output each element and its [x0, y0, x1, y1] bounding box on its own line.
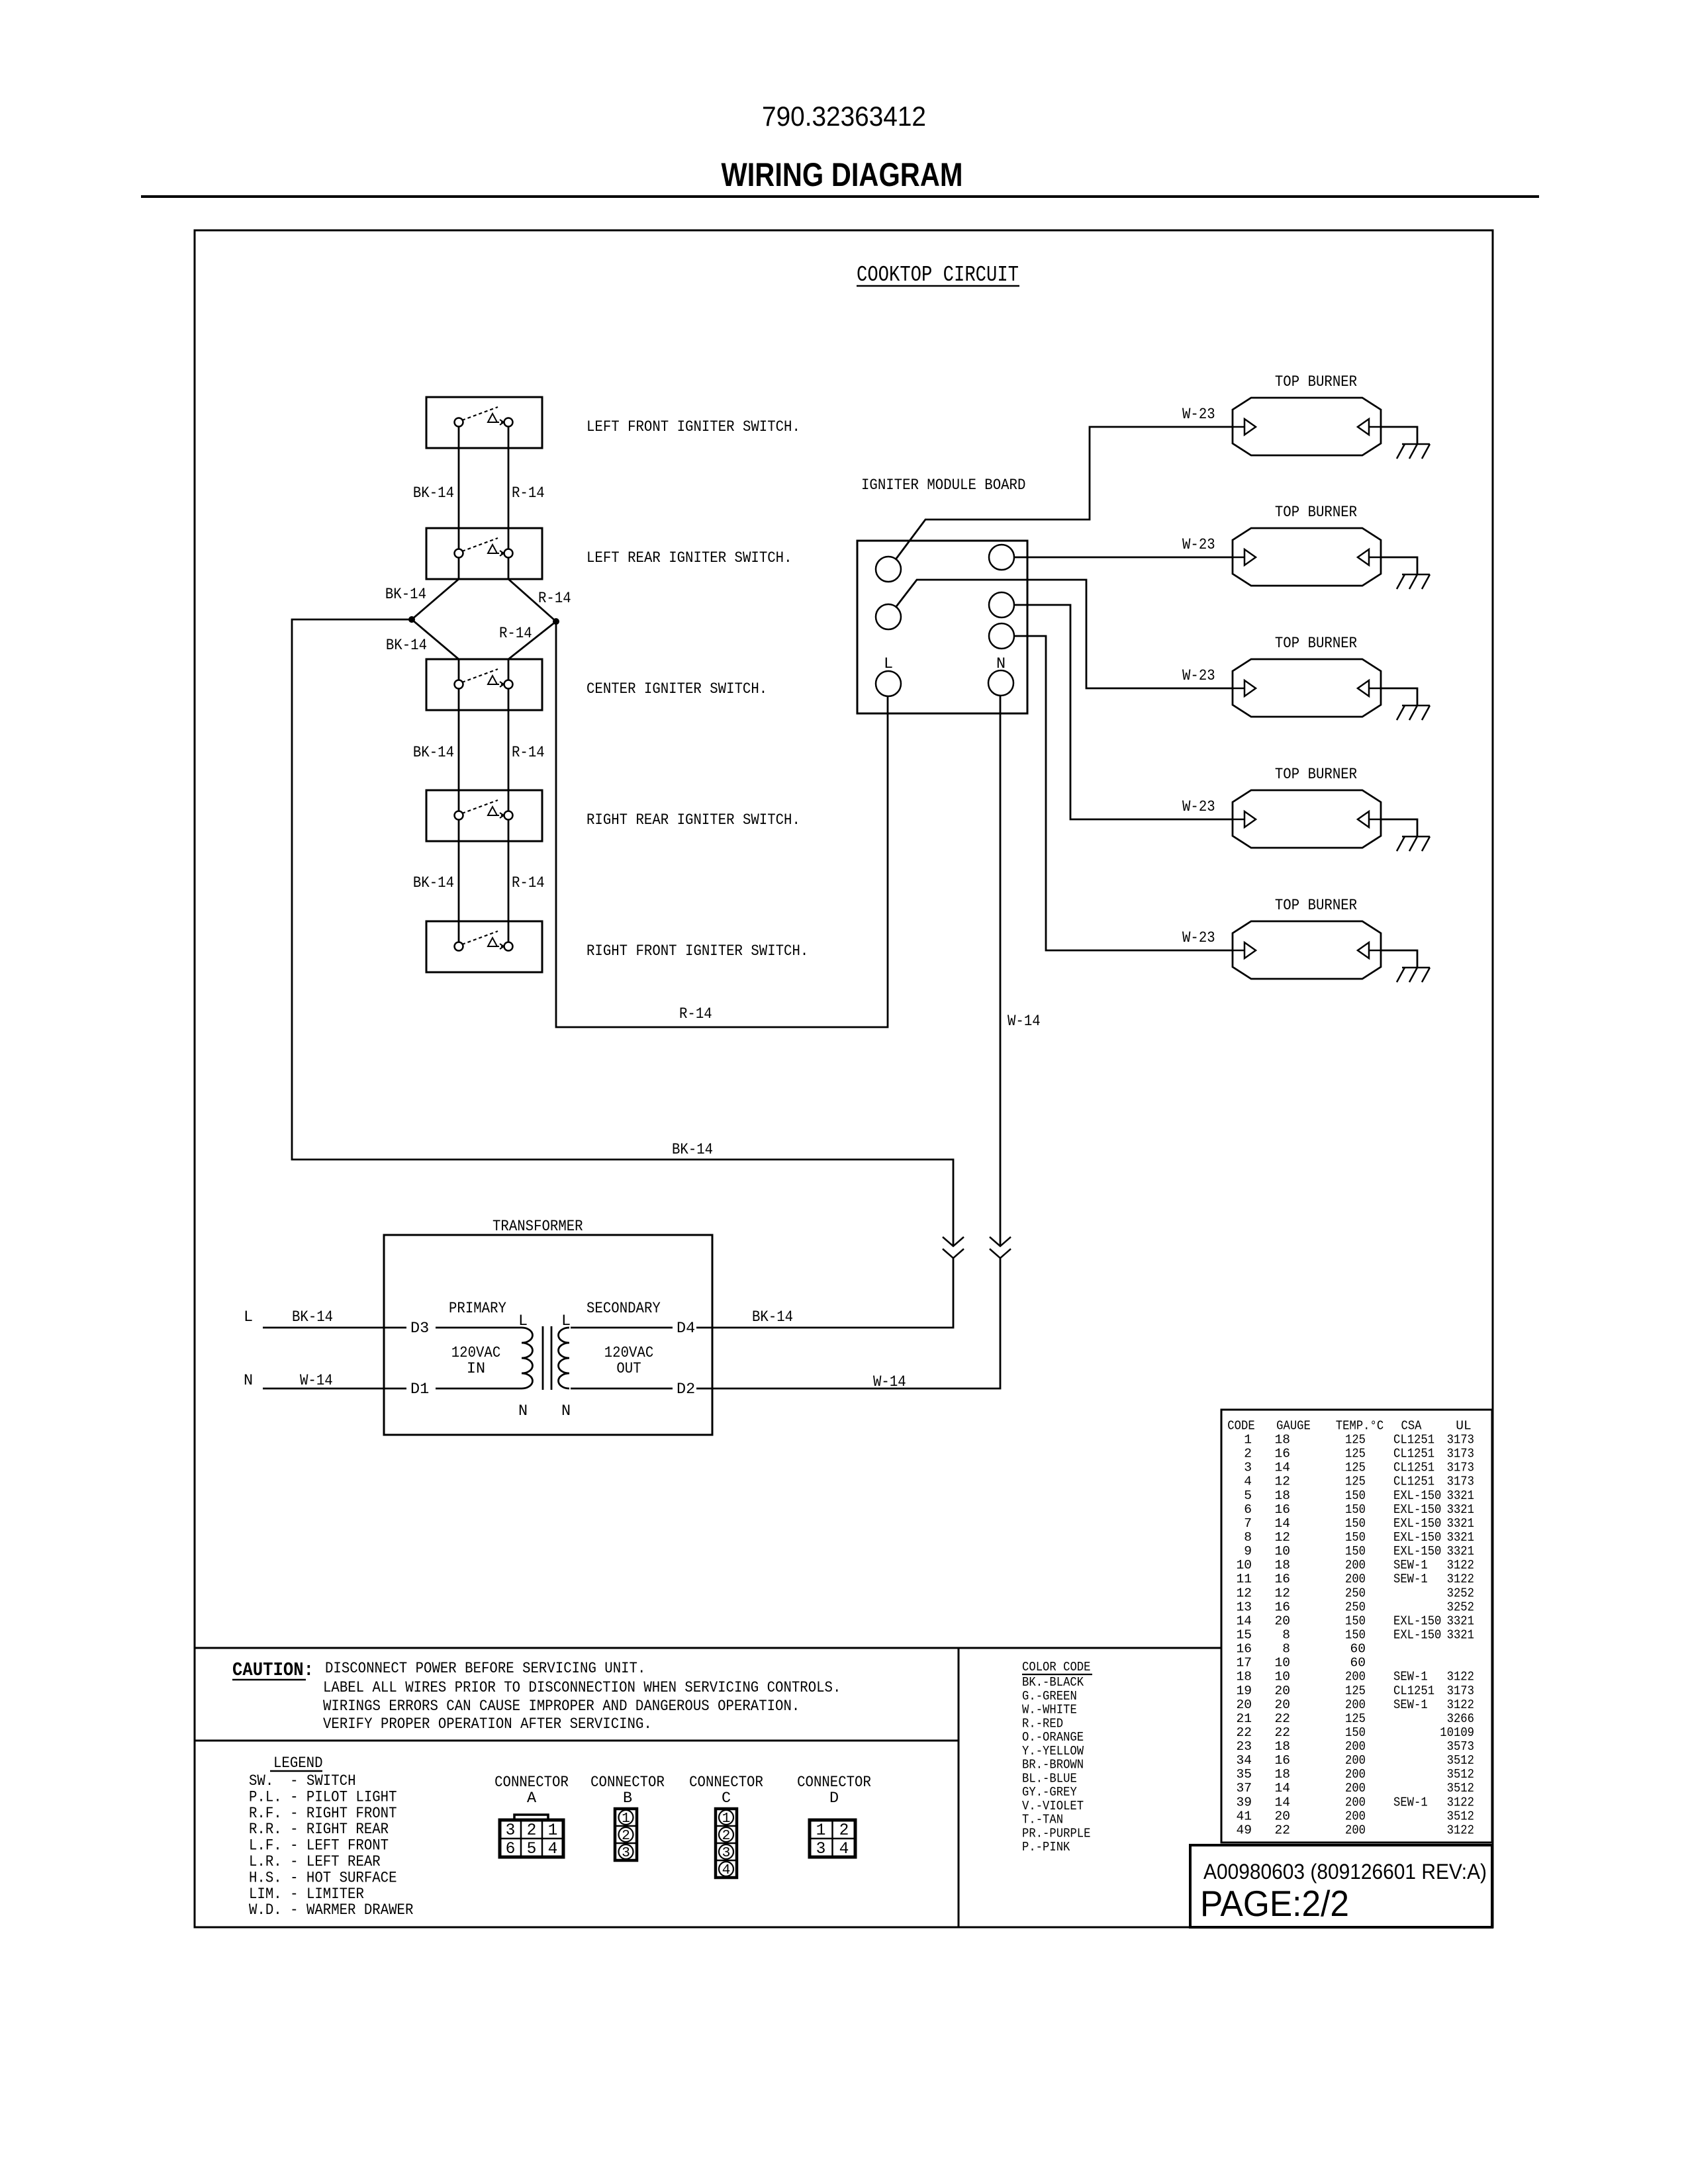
svg-text:23: 23: [1236, 1739, 1252, 1754]
svg-text:EXL-150: EXL-150: [1393, 1530, 1441, 1545]
svg-text:RIGHT FRONT IGNITER SWITCH.: RIGHT FRONT IGNITER SWITCH.: [586, 942, 808, 960]
wire board pinA to top burner 2: [1002, 557, 1233, 559]
svg-text:BK-14: BK-14: [385, 586, 426, 604]
svg-text:39: 39: [1236, 1795, 1252, 1809]
svg-text:37: 37: [1236, 1781, 1252, 1796]
burner B1 ground wire: [1381, 427, 1417, 444]
svg-text:TRANSFORMER: TRANSFORMER: [492, 1218, 583, 1236]
main diagram border: [195, 230, 1493, 1927]
svg-text:125: 125: [1345, 1447, 1366, 1461]
svg-text:GAUGE: GAUGE: [1276, 1419, 1311, 1433]
svg-text:BK-14: BK-14: [386, 637, 427, 655]
burner B1 right pin arrow: [1369, 426, 1381, 428]
svg-text:SW. - SWITCH: SW. - SWITCH: [249, 1772, 356, 1790]
switch SW2 left contact: [455, 549, 463, 558]
svg-text:3321: 3321: [1447, 1516, 1474, 1531]
svg-text:3122: 3122: [1447, 1572, 1474, 1586]
svg-text:3512: 3512: [1447, 1767, 1474, 1782]
burner B5 left pin arrow: [1233, 950, 1244, 952]
burner B4 right pin arrow: [1369, 819, 1381, 821]
svg-text:3321: 3321: [1447, 1544, 1474, 1559]
svg-text:CL1251: CL1251: [1393, 1684, 1434, 1698]
wire board pinC to top burner 5: [1002, 636, 1233, 950]
switch SW1 left contact: [455, 418, 463, 427]
svg-text:18: 18: [1274, 1433, 1290, 1447]
svg-text:L.R. - LEFT REAR: L.R. - LEFT REAR: [249, 1853, 381, 1871]
svg-text:BK-14: BK-14: [413, 874, 454, 892]
svg-text:EXL-150: EXL-150: [1393, 1544, 1441, 1559]
burner B4 left pin arrow: [1233, 819, 1244, 821]
burner B5 right pin arrow: [1369, 950, 1381, 952]
svg-text:150: 150: [1345, 1502, 1366, 1517]
igniter switch SW3 box: [426, 659, 542, 710]
svg-text:1: 1: [1244, 1433, 1252, 1447]
svg-text:200: 200: [1345, 1781, 1366, 1796]
svg-text:H.S. - HOT SURFACE: H.S. - HOT SURFACE: [249, 1869, 397, 1887]
svg-text:3173: 3173: [1447, 1684, 1474, 1698]
svg-text:N: N: [518, 1402, 528, 1420]
wire board pinB to top burner 4: [1002, 605, 1233, 819]
svg-text:9: 9: [1244, 1544, 1252, 1559]
svg-text:3122: 3122: [1447, 1823, 1474, 1838]
svg-text:CAUTION:: CAUTION:: [232, 1659, 314, 1681]
svg-text:150: 150: [1345, 1725, 1366, 1740]
wire board pin1 to top burner 1: [888, 427, 1233, 569]
igniter switch SW1 box: [426, 397, 542, 448]
svg-text:VERIFY PROPER OPERATION AFTER: VERIFY PROPER OPERATION AFTER SERVICING.: [323, 1715, 652, 1733]
svg-text:125: 125: [1345, 1433, 1366, 1447]
svg-text:LEFT FRONT IGNITER SWITCH.: LEFT FRONT IGNITER SWITCH.: [586, 418, 800, 436]
svg-text:R.-RED: R.-RED: [1022, 1716, 1063, 1731]
svg-text:WIRINGS ERRORS CAN CAUSE IMPRO: WIRINGS ERRORS CAN CAUSE IMPROPER AND DA…: [323, 1698, 800, 1715]
svg-text:W-14: W-14: [300, 1372, 333, 1390]
switch SW4 right contact: [504, 811, 513, 820]
svg-text:3321: 3321: [1447, 1628, 1474, 1643]
node J2 junction dot: [553, 618, 559, 625]
svg-text:3: 3: [506, 1822, 516, 1840]
svg-text:R-14: R-14: [512, 874, 545, 892]
svg-text:150: 150: [1345, 1488, 1366, 1503]
svg-text:CODE: CODE: [1227, 1419, 1254, 1433]
svg-text:A: A: [527, 1790, 537, 1807]
svg-text:L: L: [518, 1312, 528, 1330]
ground symbol burner B4: [1402, 836, 1430, 838]
svg-text:CL1251: CL1251: [1393, 1433, 1434, 1447]
svg-text:16: 16: [1274, 1447, 1290, 1461]
svg-text:12: 12: [1236, 1586, 1252, 1600]
svg-text:200: 200: [1345, 1767, 1366, 1782]
svg-text:COLOR CODE: COLOR CODE: [1022, 1660, 1091, 1674]
svg-text:R-14: R-14: [512, 744, 545, 762]
svg-text:N: N: [561, 1402, 571, 1420]
svg-text:LABEL ALL WIRES PRIOR TO DISCO: LABEL ALL WIRES PRIOR TO DISCONNECTION W…: [323, 1679, 841, 1697]
board L terminal: [876, 671, 901, 696]
board pinB terminal: [989, 592, 1014, 617]
svg-text:10: 10: [1274, 1670, 1290, 1684]
svg-text:3173: 3173: [1447, 1433, 1474, 1447]
svg-text:6: 6: [506, 1841, 516, 1858]
wire BK-14 SW3-SW4: [458, 684, 460, 815]
svg-text:11: 11: [1236, 1572, 1252, 1586]
svg-text:3321: 3321: [1447, 1488, 1474, 1503]
wire BK-14 SW2 to node J1: [412, 553, 459, 619]
svg-text:3: 3: [622, 1845, 630, 1861]
svg-text:W.D. - WARMER DRAWER: W.D. - WARMER DRAWER: [249, 1901, 413, 1919]
svg-text:3321: 3321: [1447, 1614, 1474, 1628]
connector chevron on W-14 bus: [990, 1237, 1011, 1246]
svg-text:TOP BURNER: TOP BURNER: [1275, 504, 1357, 522]
svg-text:3173: 3173: [1447, 1475, 1474, 1489]
burner B3 ground wire: [1381, 688, 1417, 705]
svg-text:4: 4: [839, 1841, 849, 1858]
svg-text:IN: IN: [467, 1360, 485, 1378]
wire D2 secondary out: [571, 1388, 673, 1390]
svg-text:2: 2: [527, 1822, 537, 1840]
svg-text:IGNITER MODULE BOARD: IGNITER MODULE BOARD: [861, 477, 1025, 494]
svg-text:SEW-1: SEW-1: [1393, 1795, 1428, 1809]
svg-text:4: 4: [722, 1862, 731, 1878]
svg-text:W-14: W-14: [1008, 1013, 1041, 1030]
color code panel left border: [958, 1648, 960, 1927]
connector A drawing: [514, 1815, 548, 1820]
svg-text:W.-WHITE: W.-WHITE: [1022, 1703, 1077, 1717]
svg-text:W-14: W-14: [873, 1373, 906, 1391]
top burner B5 octagon: [1233, 921, 1381, 979]
top burner B2 octagon: [1233, 528, 1381, 586]
svg-text:D: D: [829, 1790, 839, 1807]
svg-text:1: 1: [722, 1811, 731, 1827]
svg-text:60: 60: [1350, 1642, 1366, 1657]
title rule: [141, 195, 1539, 198]
svg-text:P.L. - PILOT LIGHT: P.L. - PILOT LIGHT: [249, 1788, 397, 1806]
wire board pin2 to top burner 3: [888, 580, 1233, 688]
svg-text:200: 200: [1345, 1795, 1366, 1809]
wire BK-14 switch column left SW1-SW2: [458, 422, 460, 553]
svg-text:3122: 3122: [1447, 1558, 1474, 1572]
svg-text:3512: 3512: [1447, 1809, 1474, 1823]
svg-text:WIRING DIAGRAM: WIRING DIAGRAM: [722, 156, 963, 193]
svg-text:3122: 3122: [1447, 1670, 1474, 1684]
svg-text:16: 16: [1274, 1753, 1290, 1768]
svg-text:LEGEND: LEGEND: [273, 1754, 323, 1772]
svg-text:20: 20: [1274, 1698, 1290, 1712]
svg-text:PR.-PURPLE: PR.-PURPLE: [1022, 1826, 1091, 1841]
svg-text:18: 18: [1236, 1670, 1252, 1684]
svg-text:18: 18: [1274, 1739, 1290, 1754]
svg-text:3: 3: [816, 1841, 826, 1858]
svg-text:13: 13: [1236, 1600, 1252, 1614]
svg-text:W-23: W-23: [1182, 798, 1215, 816]
page number box: [1190, 1845, 1492, 1927]
svg-text:125: 125: [1345, 1711, 1366, 1726]
svg-text:3: 3: [1244, 1461, 1252, 1475]
svg-text:16: 16: [1274, 1572, 1290, 1586]
svg-text:14: 14: [1274, 1781, 1290, 1796]
svg-text:2: 2: [622, 1828, 630, 1844]
svg-text:10: 10: [1236, 1558, 1252, 1572]
svg-text:2: 2: [839, 1822, 849, 1840]
ground symbol burner B5: [1402, 967, 1430, 969]
svg-text:D3: D3: [410, 1320, 429, 1338]
svg-text:20: 20: [1274, 1684, 1290, 1698]
igniter module board U1 box: [857, 541, 1027, 713]
svg-text:20: 20: [1274, 1809, 1290, 1823]
svg-text:120VAC: 120VAC: [451, 1344, 501, 1362]
svg-text:CONNECTOR: CONNECTOR: [797, 1774, 871, 1792]
svg-text:R-14: R-14: [538, 590, 571, 608]
wire BK-14 bus lower segment to D4: [696, 1258, 953, 1328]
svg-text:CONNECTOR: CONNECTOR: [590, 1774, 665, 1792]
switch SW4 left contact: [455, 811, 463, 820]
switch SW2 right contact: [504, 549, 513, 558]
wire R-14 switch column right SW1-SW2: [508, 422, 510, 553]
svg-text:W-23: W-23: [1182, 929, 1215, 947]
svg-text:18: 18: [1274, 1488, 1290, 1503]
svg-text:2: 2: [1244, 1447, 1252, 1461]
board pin1 terminal: [876, 557, 901, 582]
svg-text:PAGE:2/2: PAGE:2/2: [1200, 1883, 1349, 1924]
svg-text:14: 14: [1274, 1516, 1290, 1531]
svg-text:CONNECTOR: CONNECTOR: [494, 1774, 569, 1792]
svg-text:D1: D1: [410, 1381, 429, 1398]
svg-text:7: 7: [1244, 1516, 1252, 1531]
wire W-14 lower segment to transformer D2: [696, 1258, 1000, 1388]
svg-text:SECONDARY: SECONDARY: [586, 1300, 661, 1318]
svg-text:49: 49: [1236, 1823, 1252, 1838]
svg-text:200: 200: [1345, 1558, 1366, 1572]
svg-text:200: 200: [1345, 1670, 1366, 1684]
svg-text:LIM. - LIMITER: LIM. - LIMITER: [249, 1886, 364, 1903]
svg-text:EXL-150: EXL-150: [1393, 1614, 1441, 1628]
svg-text:150: 150: [1345, 1628, 1366, 1643]
svg-text:12: 12: [1274, 1530, 1290, 1545]
svg-text:22: 22: [1274, 1823, 1290, 1838]
svg-text:16: 16: [1236, 1642, 1252, 1657]
connector D drawing: [810, 1820, 855, 1857]
igniter switch SW4 box: [426, 790, 542, 841]
svg-text:3173: 3173: [1447, 1461, 1474, 1475]
svg-text:BK-14: BK-14: [752, 1308, 793, 1326]
svg-text:EXL-150: EXL-150: [1393, 1502, 1441, 1517]
svg-text:22: 22: [1274, 1725, 1290, 1740]
switch SW3 right contact: [504, 680, 513, 689]
svg-text:5: 5: [1244, 1488, 1252, 1503]
svg-text:SEW-1: SEW-1: [1393, 1558, 1428, 1572]
svg-text:14: 14: [1236, 1614, 1252, 1628]
svg-text:BR.-BROWN: BR.-BROWN: [1022, 1758, 1084, 1772]
svg-text:4: 4: [548, 1841, 558, 1858]
svg-text:SEW-1: SEW-1: [1393, 1670, 1428, 1684]
transformer T1 box: [384, 1235, 712, 1435]
svg-text:EXL-150: EXL-150: [1393, 1516, 1441, 1531]
svg-text:GY.-GREY: GY.-GREY: [1022, 1785, 1077, 1799]
wire R-14 SW3-SW4: [508, 684, 510, 815]
wire R-14 SW4-SW5: [508, 815, 510, 946]
svg-text:L: L: [884, 655, 893, 673]
svg-text:2: 2: [722, 1828, 731, 1844]
svg-text:790.32363412: 790.32363412: [762, 101, 926, 132]
svg-text:W-23: W-23: [1182, 667, 1215, 685]
igniter switch SW5 box: [426, 921, 542, 972]
svg-text:21: 21: [1236, 1711, 1252, 1726]
svg-text:22: 22: [1236, 1725, 1252, 1740]
svg-text:EXL-150: EXL-150: [1393, 1628, 1441, 1643]
svg-text:5: 5: [527, 1841, 537, 1858]
svg-text:10109: 10109: [1440, 1725, 1474, 1740]
svg-text:CL1251: CL1251: [1393, 1475, 1434, 1489]
caution box top line: [195, 1647, 1221, 1649]
svg-text:R-14: R-14: [499, 625, 532, 643]
svg-text:3: 3: [722, 1845, 731, 1861]
burner B1 left pin arrow: [1233, 426, 1244, 428]
svg-text:17: 17: [1236, 1656, 1252, 1670]
svg-text:4: 4: [1244, 1475, 1252, 1489]
svg-text:CENTER IGNITER SWITCH.: CENTER IGNITER SWITCH.: [586, 680, 767, 698]
svg-text:60: 60: [1350, 1656, 1366, 1670]
svg-text:P.-PINK: P.-PINK: [1022, 1840, 1070, 1854]
svg-text:SEW-1: SEW-1: [1393, 1698, 1428, 1712]
svg-text:TOP BURNER: TOP BURNER: [1275, 766, 1357, 784]
svg-text:TEMP.°C: TEMP.°C: [1336, 1419, 1383, 1433]
svg-text:BL.-BLUE: BL.-BLUE: [1022, 1771, 1077, 1786]
top burner B4 octagon: [1233, 790, 1381, 848]
svg-text:R-14: R-14: [512, 484, 545, 502]
svg-text:34: 34: [1236, 1753, 1252, 1768]
svg-text:20: 20: [1236, 1698, 1252, 1712]
svg-text:Y.-YELLOW: Y.-YELLOW: [1022, 1744, 1084, 1758]
svg-text:L: L: [561, 1312, 571, 1330]
svg-text:200: 200: [1345, 1698, 1366, 1712]
svg-text:3573: 3573: [1447, 1739, 1474, 1754]
svg-text:L: L: [244, 1308, 253, 1326]
svg-text:125: 125: [1345, 1475, 1366, 1489]
svg-text:CONNECTOR: CONNECTOR: [689, 1774, 763, 1792]
svg-text:6: 6: [1244, 1502, 1252, 1517]
top burner B3 octagon: [1233, 659, 1381, 717]
svg-text:10: 10: [1274, 1544, 1290, 1559]
board N terminal: [988, 670, 1013, 696]
ground symbol burner B3: [1402, 705, 1430, 707]
svg-text:200: 200: [1345, 1572, 1366, 1586]
wire N supply to D1: [263, 1388, 406, 1390]
svg-text:10: 10: [1274, 1656, 1290, 1670]
svg-text:250: 250: [1345, 1600, 1366, 1614]
svg-text:200: 200: [1345, 1739, 1366, 1754]
svg-text:3252: 3252: [1447, 1600, 1474, 1614]
igniter switch SW2 box: [426, 528, 542, 579]
svg-text:N: N: [996, 655, 1006, 673]
svg-text:3321: 3321: [1447, 1530, 1474, 1545]
svg-text:A00980603 (809126601 REV:A): A00980603 (809126601 REV:A): [1203, 1860, 1487, 1884]
svg-text:B: B: [623, 1790, 632, 1807]
svg-text:BK.-BLACK: BK.-BLACK: [1022, 1675, 1084, 1690]
svg-text:8: 8: [1244, 1530, 1252, 1545]
wire R-14 SW2 to node J2: [508, 553, 556, 621]
svg-text:120VAC: 120VAC: [604, 1344, 654, 1362]
svg-text:BK-14: BK-14: [672, 1141, 713, 1159]
primary winding coil: [522, 1328, 533, 1388]
svg-text:20: 20: [1274, 1614, 1290, 1628]
svg-text:19: 19: [1236, 1684, 1252, 1698]
svg-text:D2: D2: [677, 1381, 695, 1398]
svg-text:CL1251: CL1251: [1393, 1461, 1434, 1475]
svg-text:EXL-150: EXL-150: [1393, 1488, 1441, 1503]
connector C drawing: [716, 1809, 737, 1878]
wire W-14 from igniter board N pin down: [1000, 683, 1002, 1246]
top burner B1 octagon: [1233, 398, 1381, 455]
secondary winding coil: [559, 1328, 570, 1388]
svg-text:150: 150: [1345, 1530, 1366, 1545]
burner B2 right pin arrow: [1369, 557, 1381, 559]
ground symbol burner B1: [1402, 443, 1430, 445]
svg-text:OUT: OUT: [616, 1360, 641, 1378]
svg-text:COOKTOP CIRCUIT: COOKTOP CIRCUIT: [857, 263, 1019, 287]
svg-text:RIGHT REAR IGNITER SWITCH.: RIGHT REAR IGNITER SWITCH.: [586, 811, 800, 829]
svg-text:22: 22: [1274, 1711, 1290, 1726]
svg-text:PRIMARY: PRIMARY: [449, 1300, 506, 1318]
svg-text:41: 41: [1236, 1809, 1252, 1823]
svg-text:16: 16: [1274, 1502, 1290, 1517]
svg-text:W-23: W-23: [1182, 536, 1215, 554]
svg-text:BK-14: BK-14: [292, 1308, 333, 1326]
svg-text:LEFT REAR IGNITER SWITCH.: LEFT REAR IGNITER SWITCH.: [586, 549, 792, 567]
switch SW5 right contact: [504, 942, 513, 951]
svg-text:L.F. - LEFT FRONT: L.F. - LEFT FRONT: [249, 1837, 389, 1855]
burner B3 left pin arrow: [1233, 688, 1244, 690]
svg-text:15: 15: [1236, 1628, 1252, 1643]
svg-text:1: 1: [548, 1822, 558, 1840]
svg-text:D4: D4: [677, 1320, 695, 1338]
transformer core: [542, 1326, 544, 1390]
svg-text:V.-VIOLET: V.-VIOLET: [1022, 1799, 1084, 1813]
svg-text:R-14: R-14: [679, 1005, 712, 1023]
board pin2 terminal: [876, 604, 901, 629]
svg-text:3122: 3122: [1447, 1698, 1474, 1712]
svg-text:18: 18: [1274, 1767, 1290, 1782]
svg-text:150: 150: [1345, 1614, 1366, 1628]
svg-text:O.-ORANGE: O.-ORANGE: [1022, 1730, 1084, 1745]
burner B2 ground wire: [1381, 557, 1417, 574]
board pinA terminal: [989, 545, 1014, 570]
svg-text:150: 150: [1345, 1516, 1366, 1531]
svg-text:16: 16: [1274, 1600, 1290, 1614]
svg-text:12: 12: [1274, 1586, 1290, 1600]
svg-text:G.-GREEN: G.-GREEN: [1022, 1689, 1077, 1704]
svg-text:200: 200: [1345, 1809, 1366, 1823]
svg-text:C: C: [722, 1790, 731, 1807]
svg-text:1: 1: [816, 1822, 826, 1840]
wire R-14 bus node J2 to igniter board L pin: [556, 621, 888, 1027]
connector B drawing: [615, 1809, 637, 1860]
svg-text:TOP BURNER: TOP BURNER: [1275, 635, 1357, 653]
svg-text:8: 8: [1282, 1628, 1290, 1643]
svg-text:3173: 3173: [1447, 1447, 1474, 1461]
svg-text:TOP BURNER: TOP BURNER: [1275, 373, 1357, 391]
svg-text:TOP BURNER: TOP BURNER: [1275, 897, 1357, 915]
svg-text:3252: 3252: [1447, 1586, 1474, 1600]
switch SW1 right contact: [504, 418, 513, 427]
burner B3 right pin arrow: [1369, 688, 1381, 690]
svg-text:N: N: [244, 1372, 253, 1390]
svg-text:8: 8: [1282, 1642, 1290, 1657]
svg-text:SEW-1: SEW-1: [1393, 1572, 1428, 1586]
svg-text:150: 150: [1345, 1544, 1366, 1559]
svg-text:DISCONNECT POWER BEFORE SERVIC: DISCONNECT POWER BEFORE SERVICING UNIT.: [325, 1660, 645, 1678]
connector chevron on BK-14 bus: [943, 1237, 964, 1246]
svg-text:125: 125: [1345, 1684, 1366, 1698]
burner B2 left pin arrow: [1233, 557, 1244, 559]
svg-text:1: 1: [622, 1811, 630, 1827]
